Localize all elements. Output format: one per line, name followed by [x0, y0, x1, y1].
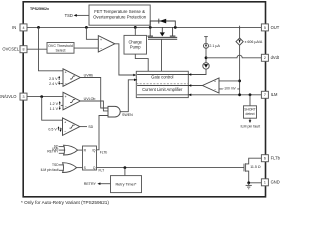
arrowhead OVC into gate control [133, 74, 136, 77]
wire SD stub [59, 146, 65, 148]
svg-text:Select: Select [56, 49, 66, 53]
comparator UVR (2.5/2.4V) [63, 69, 80, 87]
svg-text:1.2 V: 1.2 V [50, 102, 59, 106]
op-amp current limit [203, 78, 220, 93]
pin ILM 7 [261, 91, 278, 98]
node EN branch [40, 95, 43, 98]
pin GND 1 [261, 179, 279, 186]
wire ILM net [137, 94, 261, 96]
svg-text:* Only for Auto-Retry Variant: * Only for Auto-Retry Variant (TPS259621… [21, 200, 109, 205]
node IN-branch junction [37, 26, 40, 29]
svg-text:4: 4 [23, 26, 25, 30]
IC boundary border [23, 2, 265, 197]
block Gate control / Current Limit Amplifier [136, 71, 188, 97]
transistor Q1 power FET [147, 27, 177, 39]
node GND junction [247, 181, 250, 184]
svg-text:2.5 V: 2.5 V [49, 77, 58, 81]
wire amp - input with -100 mV offset [219, 88, 240, 90]
wire sense diamond to ILM net [239, 45, 241, 95]
svg-text:IN: IN [12, 25, 16, 30]
wire EN to SD comparator [42, 97, 63, 121]
svg-text:−: − [214, 88, 216, 92]
svg-text:+: + [100, 38, 102, 42]
svg-text:0.5 V: 0.5 V [48, 128, 57, 132]
svg-text:/Q: /Q [92, 148, 96, 152]
wire EN/UVLO input [27, 96, 63, 98]
comparator UVLO (1.2/1.1V) [63, 92, 80, 110]
arrowhead TSD [74, 14, 77, 17]
arrowhead ILM into gate control [188, 94, 191, 97]
wire OUT to current sense diamond [239, 27, 241, 38]
svg-text:OUT: OUT [271, 25, 280, 30]
wire short detect output [249, 118, 251, 120]
pin OUT 5 [261, 24, 279, 31]
node ILM sense junction [238, 93, 241, 96]
or-gate G1 fault set [64, 145, 78, 155]
arrowhead RETRY [97, 182, 100, 185]
svg-text:2: 2 [264, 56, 266, 60]
block Retry Timer [111, 176, 142, 193]
wire OVC comparator output to gate control [115, 44, 136, 75]
svg-text:detect: detect [246, 112, 255, 116]
wire IN sense drop (to UVR comparator) [39, 27, 64, 70]
node OUT sense tap [239, 26, 241, 29]
svg-text:+: + [65, 71, 67, 75]
svg-text:GND: GND [271, 180, 280, 185]
node FET drain [149, 26, 152, 29]
svg-text:Pump: Pump [130, 45, 141, 50]
svg-text:UVRb: UVRb [84, 73, 94, 77]
wire UVb stub [59, 149, 65, 151]
node charge-pump tap [134, 26, 137, 29]
svg-text:Overtemperature Protection: Overtemperature Protection [93, 14, 147, 19]
svg-text:TSD: TSD [52, 163, 59, 167]
current source x606 uA/A [236, 38, 263, 45]
wire clamp to gate control [137, 69, 206, 74]
clamp dVdt discharge [203, 63, 209, 69]
flip-flop SR latch [83, 146, 97, 170]
svg-text:1: 1 [264, 181, 266, 185]
current source 2.1 uA [204, 37, 221, 49]
comparator SD (0.5V) [63, 118, 80, 135]
svg-text:3: 3 [23, 95, 25, 99]
wire IN tap to OVC comparator + [86, 27, 98, 39]
wire threshold select to OVC comparator [74, 47, 98, 49]
wire SWEN output to gate control [120, 80, 137, 112]
block OVC Threshold Select [47, 43, 74, 54]
wire G2 to latch S [77, 167, 83, 169]
svg-text:FLTb: FLTb [271, 156, 280, 161]
svg-text:−: − [65, 82, 67, 86]
pin FLTb 6 [261, 155, 280, 162]
svg-text:Q: Q [93, 166, 96, 170]
svg-text:ILM: ILM [271, 92, 278, 97]
wire UVLOb output to SWEN and [80, 101, 108, 111]
svg-text:−: − [64, 129, 66, 133]
wire UVRb output to SWEN and [80, 78, 108, 109]
block U1 FET Temperature Sense & Overtemperature Protection [89, 5, 150, 25]
node short-detect tap [249, 93, 252, 96]
svg-text:TSD: TSD [65, 13, 73, 18]
wire charge pump to gate control [135, 54, 148, 71]
svg-text:x 606 µA/A: x 606 µA/A [245, 40, 263, 44]
block Charge Pump [124, 35, 147, 54]
wire retry timer input [124, 168, 126, 176]
wire amp + input [219, 80, 240, 82]
label -100 mV [223, 86, 238, 91]
wire 2.1uA to dVdt node [205, 48, 207, 62]
diode body diode loop [150, 19, 175, 28]
svg-text:RETRY: RETRY [47, 150, 59, 154]
wire amp output to gate control [137, 85, 202, 87]
node dVdt [205, 56, 208, 59]
and-gate SWEN [108, 106, 120, 117]
wire ILM pin fault stub [59, 169, 64, 171]
svg-text:7: 7 [264, 93, 266, 97]
pin dVdt 2 [261, 54, 279, 61]
svg-text:TPS25962x: TPS25962x [30, 7, 49, 11]
wire dVdt pin to node (hops over sense rail) [206, 55, 261, 58]
svg-text:−: − [100, 47, 102, 51]
comparator OVC [98, 36, 115, 52]
label 2.5 V threshold [49, 76, 63, 86]
svg-text:dVdt: dVdt [271, 55, 280, 60]
wire IN rail (IN to OUT across top) [27, 26, 261, 28]
svg-text:6: 6 [264, 157, 266, 161]
wire TSD output [76, 14, 89, 16]
arrowhead amp out into gate control [188, 84, 191, 87]
node retry tap [124, 166, 127, 169]
transistor Q2 open-drain FLTb pulldown [244, 158, 261, 183]
svg-text:SWEN: SWEN [122, 113, 133, 117]
node amp + tap [238, 80, 241, 83]
svg-text:EN/UVLO: EN/UVLO [0, 94, 17, 99]
svg-text:-100 mV: -100 mV [223, 87, 236, 91]
label 0.5 V threshold [48, 126, 62, 132]
svg-text:1.1 V: 1.1 V [50, 107, 59, 111]
svg-text:2.4 V: 2.4 V [49, 82, 58, 86]
wire OVCSEL to threshold select [27, 48, 47, 50]
or-gate G2 fault clear [63, 163, 77, 173]
wire charge pump supply tap [134, 27, 136, 35]
svg-text:ILM pin fault: ILM pin fault [41, 168, 59, 172]
svg-text:2.1 µA: 2.1 µA [209, 44, 220, 48]
svg-text:RETRY: RETRY [84, 182, 97, 186]
svg-text:−: − [65, 105, 67, 109]
wire G1 to latch R [78, 149, 83, 151]
wire RETRY stub [59, 152, 65, 154]
svg-text:+: + [214, 80, 216, 84]
svg-text:FLT: FLT [99, 168, 105, 172]
wire to short detect [249, 95, 251, 106]
arrowhead SWEN into gate control [134, 79, 137, 82]
svg-text:ILM pin fault: ILM pin fault [241, 125, 261, 129]
svg-text:8: 8 [23, 48, 25, 52]
pin EN/UVLO 3 [0, 93, 27, 100]
svg-text:5: 5 [264, 26, 266, 30]
node OVC comparator tap [85, 26, 88, 29]
pin IN 4 [12, 24, 27, 31]
wire TSD stub [59, 164, 64, 166]
svg-text:+: + [64, 120, 66, 124]
wire FLT net (latch Q to open-drain gate) [97, 167, 245, 169]
svg-text:SD: SD [88, 125, 93, 129]
wire RETRY output [100, 183, 111, 185]
wire FET gate to gate control [161, 39, 163, 71]
node FET source / OUT net [174, 26, 177, 29]
label 1.2 V threshold [50, 101, 63, 111]
svg-text:Gate control: Gate control [151, 75, 173, 80]
svg-text:+: + [65, 95, 67, 99]
pin OVCSEL 8 [2, 46, 27, 53]
wire SD output [80, 126, 87, 128]
svg-text:Retry Timer*: Retry Timer* [115, 183, 137, 187]
svg-text:OVCSEL: OVCSEL [2, 47, 19, 52]
svg-text:Current Limit Amplifier: Current Limit Amplifier [142, 87, 183, 92]
block SHORT detect [244, 106, 257, 118]
arrowhead dVdt into gate control (right side) [188, 73, 191, 76]
svg-text:11.5 Ω: 11.5 Ω [250, 165, 261, 169]
wire FLTb internal to SWEN and-gate [97, 116, 109, 150]
arrowhead down [249, 120, 252, 123]
svg-text:FLTb: FLTb [100, 150, 108, 154]
svg-text:UVLOb: UVLOb [84, 97, 96, 101]
ground [246, 183, 252, 189]
